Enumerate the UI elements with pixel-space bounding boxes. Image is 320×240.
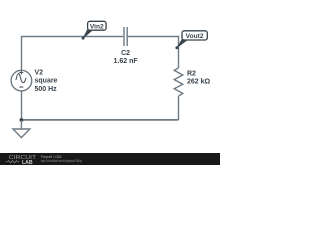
voltage source V2 [11,70,32,91]
svg-text:500 Hz: 500 Hz [35,86,58,93]
watermark footer bar [0,153,220,165]
junction dot node at ground [20,118,24,122]
wire right vertical upper [178,36,180,68]
node flag Vout2 box [182,31,207,40]
svg-text:LAB: LAB [22,160,33,165]
svg-text:Vin2: Vin2 [90,23,104,30]
svg-text:C2: C2 [121,50,130,57]
wire left vertical upper [21,36,23,71]
node flag Vin2 box [88,21,107,30]
wire bottom horizontal [22,119,179,121]
svg-text:Vout2: Vout2 [186,33,204,40]
node flag Vout2 pointer [177,40,187,48]
capacitor C2 [124,27,127,46]
node flag Vout2 anchor dot [175,46,178,49]
node flag Vin2 anchor dot [82,37,85,40]
svg-text:1.62 nF: 1.62 nF [114,58,139,65]
wire right vertical lower [178,96,180,120]
svg-text:262 kΩ: 262 kΩ [187,79,211,86]
svg-text:http://circuitlab.com/c/kyepax: http://circuitlab.com/c/kyepaxk766hy [41,159,82,163]
node flag Vin2 pointer [83,30,93,39]
resistor R2 [174,68,183,96]
svg-text:square: square [35,78,58,85]
svg-text:V2: V2 [35,69,44,76]
svg-text:R2: R2 [187,70,196,77]
watermark logo zigzag [6,161,20,163]
wire top-right horizontal segment [128,36,179,38]
ground [13,120,30,138]
voltage source V2 waveform glyph [16,71,26,87]
wire left vertical lower [21,91,23,120]
wire top-left horizontal segment [22,36,124,38]
